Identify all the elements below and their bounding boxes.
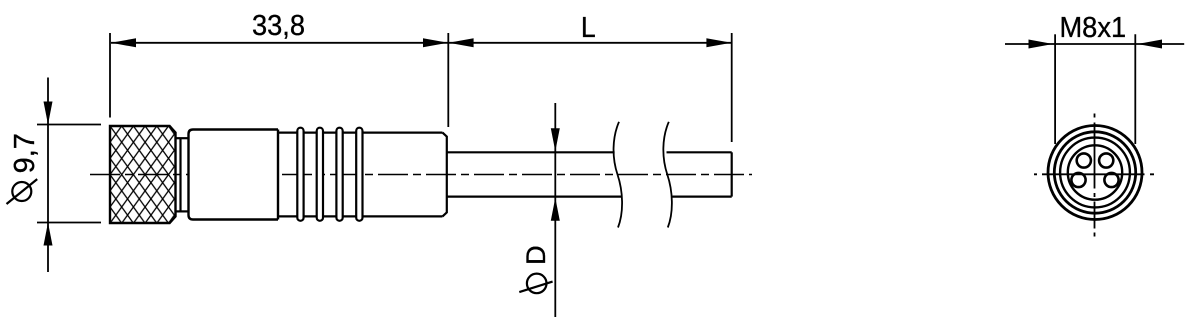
neck ring (176, 138, 189, 211)
ribbed sleeve surface (278, 133, 443, 217)
pin top-left (1077, 153, 1091, 167)
svg-text:L: L (581, 11, 596, 43)
dimension line 33,8 (111, 38, 448, 47)
centerline side view axis (90, 174, 752, 176)
rib 1 (297, 128, 303, 221)
rib 3 (336, 128, 342, 221)
svg-text:33,8: 33,8 (252, 9, 305, 41)
dimension L extension line right (731, 33, 733, 142)
dimension line 9,7 (44, 78, 53, 273)
dimension 33,8 / L shared extension line (447, 33, 449, 127)
cable segment 2 (667, 152, 732, 196)
pin bottom-right (1104, 173, 1118, 187)
rib 4 (356, 128, 362, 221)
cable segment 1 (447, 152, 623, 196)
sleeve right end with chamfer (443, 133, 447, 217)
face view horizontal centerline (1034, 173, 1154, 175)
dimension line M8x1 (1005, 40, 1184, 49)
face view vertical centerline (1094, 114, 1096, 238)
connector body (189, 130, 279, 220)
rib 2 (317, 128, 323, 221)
svg-text:D: D (521, 245, 551, 265)
pin bottom-left (1071, 173, 1085, 187)
dimension M8x1 extension line right (1134, 34, 1136, 144)
face view outer circle (knurl) (1048, 126, 1142, 220)
break line 1 (614, 122, 623, 228)
dimension 9,7 extension line top (37, 124, 101, 126)
break line 2 (663, 122, 672, 228)
dimension text diameter D (519, 245, 552, 293)
svg-text:9,7: 9,7 (9, 133, 41, 173)
dimension 9,7 extension line bottom (37, 222, 101, 224)
dimension M8x1 extension line left (1054, 34, 1056, 144)
dimension D arrow line (551, 103, 560, 317)
face view insert circle (1068, 145, 1122, 199)
dimension line L (449, 38, 732, 47)
dimension 33,8 extension line left (109, 33, 111, 118)
dimension text diameter 9,7 (7, 133, 41, 204)
knurled nut (110, 126, 176, 223)
pin top-right (1099, 153, 1113, 167)
svg-text:M8x1: M8x1 (1059, 11, 1126, 43)
face view thread circle (1054, 132, 1135, 213)
face view inner shell circle (1060, 138, 1130, 208)
